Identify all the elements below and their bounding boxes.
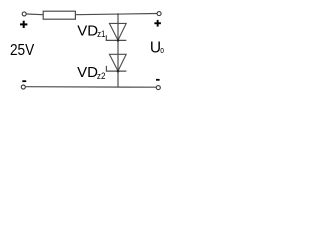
wire top rail right (resistor to output terminal)	[75, 14, 157, 15]
zener diode VDz2	[106, 54, 126, 71]
resistor R (series limiting resistor)	[43, 11, 75, 19]
svg-text:z1: z1	[97, 29, 105, 40]
svg-text:VD: VD	[77, 64, 98, 81]
minus sign bottom-left	[22, 80, 26, 82]
terminal top-left (+)	[22, 12, 26, 16]
node between diodes (cathode of VDz1)	[117, 39, 120, 42]
svg-text:25V: 25V	[10, 42, 35, 59]
node top junction	[117, 13, 119, 15]
zener diode VDz1	[106, 23, 126, 40]
minus sign bottom-right	[156, 79, 160, 81]
plus sign top-left	[20, 21, 27, 28]
terminal top-right (+)	[157, 12, 161, 16]
terminal bottom-right (-)	[156, 86, 160, 90]
node cathode of VDz2	[117, 70, 120, 73]
svg-text:VD: VD	[77, 22, 98, 39]
wire top rail left (terminal to resistor)	[27, 13, 44, 16]
label Uo (output voltage)	[150, 39, 164, 56]
svg-text:z2: z2	[97, 71, 106, 82]
plus sign top-right	[154, 20, 161, 27]
wire vertical diode branch	[117, 14, 119, 87]
label VDz1	[77, 22, 105, 40]
label VDz2	[77, 64, 105, 82]
terminal bottom-left (-)	[21, 85, 25, 89]
wire bottom rail	[26, 86, 157, 89]
svg-text:o: o	[160, 45, 164, 55]
